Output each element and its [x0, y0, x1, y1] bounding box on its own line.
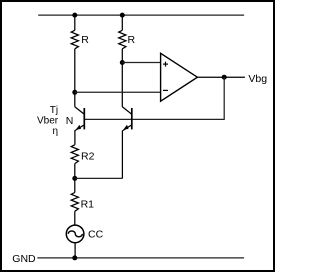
svg-text:N: N [66, 115, 74, 127]
wire R1 to current source [74, 211, 76, 225]
wire Q2 emitter lead [121, 130, 123, 178]
svg-text:R2: R2 [81, 150, 95, 162]
wire right resistor to Q2 collector [121, 49, 123, 107]
svg-text:R: R [81, 34, 89, 46]
resistor R1 [71, 193, 78, 212]
wire right collector to op-amp + input [122, 62, 160, 64]
wire current source to ground rail [74, 243, 76, 258]
wire common node to Q2 emitter [75, 177, 123, 179]
wire op-amp output to Vbg [197, 76, 245, 78]
wire ground rail [37, 257, 244, 259]
node junction dot output [222, 75, 227, 80]
wire left collector to op-amp - input [75, 91, 161, 93]
node junction dot right on top rail [120, 13, 125, 18]
svg-text:R: R [128, 34, 136, 46]
svg-text:R1: R1 [81, 198, 95, 210]
transistor Q2 [122, 107, 132, 131]
wire Q1 emitter to R2 [74, 130, 76, 145]
op-amp U1 [161, 53, 198, 101]
node junction dot emitter common [72, 176, 77, 181]
node junction dot ground [72, 255, 77, 260]
current source CC [66, 225, 84, 243]
node junction dot right collector [120, 60, 125, 65]
wire rail to right resistor R [121, 15, 123, 30]
wire node to R1 [74, 178, 76, 192]
node junction dot left collector [72, 90, 77, 95]
wire left resistor to Q1 collector [74, 49, 76, 107]
wire rail to left resistor R [74, 15, 76, 30]
resistor R2 [71, 145, 78, 164]
wire top supply rail [38, 14, 244, 16]
resistor R left [71, 30, 78, 49]
svg-text:Tj: Tj [50, 105, 58, 116]
svg-text:GND: GND [12, 253, 36, 265]
resistor R right [119, 30, 126, 49]
svg-text:CC: CC [88, 228, 104, 240]
svg-text:η: η [53, 126, 59, 137]
wire feedback output to bases [84, 77, 224, 119]
wire R2 to node [74, 164, 76, 179]
svg-text:Vbg: Vbg [248, 73, 267, 85]
node junction dot left on top rail [72, 13, 77, 18]
transistor Q1 (N devices) [75, 107, 85, 131]
